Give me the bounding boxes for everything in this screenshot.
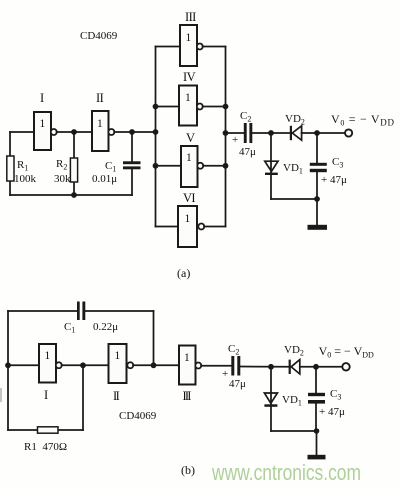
bubble of inverter VI — [198, 224, 204, 230]
wire: input of inverter I — [10, 131, 34, 133]
svg-text:47μ: 47μ — [229, 378, 246, 390]
svg-text:0.01μ: 0.01μ — [92, 173, 117, 185]
wire: IV output to bus — [203, 106, 226, 108]
svg-text:(b): (b) — [181, 463, 195, 477]
svg-text:1: 1 — [185, 92, 191, 104]
svg-text:R1 470Ω: R1 470Ω — [24, 441, 67, 453]
diode VD1 (a), cathode down — [270, 133, 272, 173]
bubble of inverter V — [197, 163, 203, 169]
node: main wire joins input bus — [153, 129, 159, 135]
wire: VD2 to terminal (b) — [300, 366, 343, 368]
wire: C2 to VD2 (b) — [240, 366, 289, 368]
inverter U-V (a) — [181, 146, 198, 187]
svg-text:1: 1 — [186, 152, 192, 164]
node: ground junction (b) — [314, 428, 320, 434]
wire: VD2 to output terminal — [302, 132, 345, 134]
ground (a) — [316, 199, 318, 225]
wire: III output to bus — [203, 46, 226, 48]
wire: bottom rail VD1/C3 (a) — [271, 198, 317, 200]
svg-text:100k: 100k — [14, 173, 37, 185]
svg-text:(a): (a) — [177, 266, 190, 280]
wire: I to II (b) — [62, 364, 109, 366]
wire: bottom rail VD1/C3 (b) — [271, 430, 317, 432]
node: V input on bus — [153, 163, 159, 169]
wire: VI output to bus — [204, 226, 225, 228]
ground (b) — [316, 431, 318, 455]
wire: I output to II input — [57, 131, 92, 133]
wire: bus to C2 — [226, 132, 245, 134]
svg-text:1: 1 — [184, 352, 190, 364]
svg-text:IV: IV — [183, 70, 196, 84]
svg-text:I: I — [40, 91, 44, 105]
svg-text:VI: VI — [183, 191, 195, 205]
edge artifact mark — [0, 388, 2, 402]
inverter U-III (a) — [180, 25, 197, 66]
svg-text:1: 1 — [97, 118, 103, 130]
wire: left vertical feedback (b) — [7, 311, 9, 430]
svg-text:+: + — [222, 368, 228, 380]
inverter U-I (a) — [34, 112, 51, 150]
node: C1 top — [129, 129, 135, 135]
svg-text:CD4069: CD4069 — [80, 30, 118, 42]
inverter U-IV (a) — [179, 86, 197, 126]
inverter U-II (a) — [92, 111, 109, 151]
wire: C2 to VD2 — [252, 132, 290, 134]
node: VD1 tap — [268, 130, 274, 136]
wire: IV input — [156, 106, 180, 108]
svg-text:+: + — [232, 134, 238, 146]
svg-text:www.cntronics.com: www.cntronics.com — [211, 460, 361, 485]
bubble of inverter II (b) — [127, 362, 133, 368]
wire: top feedback left segment — [8, 310, 77, 312]
wire: R2 vertical branch — [73, 132, 75, 195]
capacitor C3 47u (b) — [315, 367, 317, 393]
wire: bottom rail of oscillator (a) — [10, 194, 132, 196]
diode VD1 (b), cathode down — [270, 367, 272, 405]
node: V output on bus — [223, 163, 229, 169]
node: input of I (b) — [5, 362, 11, 368]
svg-text:+ 47μ: + 47μ — [321, 174, 347, 186]
svg-text:1: 1 — [186, 32, 192, 44]
bubble of inverter III (b) — [195, 363, 201, 369]
svg-text:II: II — [96, 91, 104, 105]
diode VD2 (b), cathode left — [289, 360, 291, 374]
node: C2 tap on output bus — [223, 130, 229, 136]
svg-text:V: V — [186, 131, 195, 145]
bubble of inverter II — [108, 129, 114, 135]
resistor R1 100k — [7, 156, 14, 181]
node: IV output on bus — [223, 104, 229, 110]
inverter U-VI (a) — [178, 206, 197, 247]
node: junction R2 top — [71, 129, 77, 135]
bubble of inverter III — [197, 44, 203, 50]
diode VD2 (a), cathode left — [290, 126, 292, 140]
capacitor C1 0.22u (b) — [77, 302, 80, 321]
wire: V output to bus — [203, 165, 225, 167]
node: VD1 tap (b) — [268, 364, 274, 370]
terminal Vo (b) — [342, 363, 349, 370]
svg-text:1: 1 — [185, 213, 191, 225]
capacitor C3 47u (a) — [316, 133, 318, 163]
resistor R1 470ohm (b) — [38, 427, 59, 433]
wire: left vertical branch with R1 — [9, 132, 11, 195]
svg-text:I: I — [44, 388, 48, 402]
wire: input bus (left) of parallel inverters — [155, 47, 157, 227]
svg-text:1: 1 — [40, 118, 46, 130]
wire: V input — [156, 165, 182, 167]
bubble of inverter I (b) — [56, 362, 62, 368]
svg-text:III: III — [185, 10, 196, 24]
svg-text:47μ: 47μ — [239, 146, 256, 158]
capacitor C1 0.01u — [131, 132, 133, 162]
wire: top feedback right segment — [85, 310, 153, 312]
svg-text:1: 1 — [45, 350, 51, 362]
node: C3 tap — [314, 130, 320, 136]
node: R1 tap (b) — [80, 362, 86, 368]
wire: III input — [156, 46, 181, 48]
bubble of inverter I — [51, 129, 57, 135]
svg-text:+ 47μ: + 47μ — [319, 406, 345, 418]
terminal Vo (a) — [345, 129, 352, 136]
bubble of inverter IV — [197, 104, 203, 110]
wire: VI input — [156, 226, 179, 228]
resistor R2 30k — [70, 158, 77, 182]
inverter U-I (b) — [39, 344, 56, 383]
node: IV input on bus — [153, 104, 159, 110]
capacitor C2 47u (a) — [244, 123, 247, 143]
svg-text:0.22μ: 0.22μ — [93, 321, 118, 333]
node: C1 feedback tap (b) — [151, 362, 157, 368]
wire: II to III (b) — [133, 364, 179, 366]
wire: main input (b) — [8, 364, 39, 366]
wire: R1 vertical branch (b) — [82, 365, 84, 430]
node: ground junction (a) — [314, 196, 320, 202]
wire: output bus (right) of parallel inverters — [225, 47, 227, 227]
wire: III to C2 (b) — [201, 365, 231, 367]
node: R2 bottom junction — [71, 192, 77, 198]
node: C3 tap (b) — [313, 364, 319, 370]
wire: bottom feedback rail (b) — [8, 429, 83, 431]
svg-text:CD4069: CD4069 — [119, 410, 157, 422]
inverter U-III (b) — [179, 346, 196, 385]
wire: II output to input bus — [114, 131, 155, 133]
svg-text:1: 1 — [115, 350, 121, 362]
svg-text:30k: 30k — [54, 173, 71, 185]
capacitor C2 47u (b) — [231, 356, 234, 376]
inverter U-II (b) — [109, 344, 127, 383]
